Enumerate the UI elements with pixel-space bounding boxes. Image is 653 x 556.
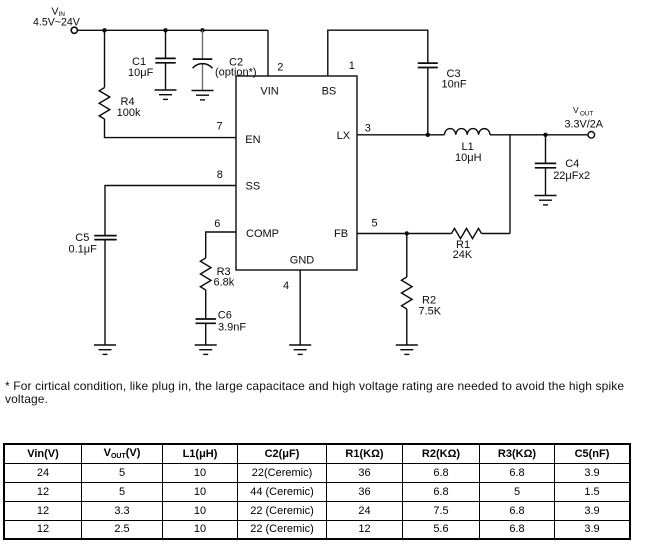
wire R2 bottom <box>406 309 408 345</box>
wire C5 to ground <box>104 240 106 345</box>
capacitor C2 wires <box>202 30 204 90</box>
capacitor C4 plates <box>535 163 556 167</box>
capacitor C2 curved plate <box>193 64 213 69</box>
capacitor C3 plates <box>418 63 438 67</box>
svg-text:C6: C6 <box>218 310 232 322</box>
inductor L1 <box>444 129 490 135</box>
wire C3 to LX node <box>427 68 429 135</box>
svg-text:10μF: 10μF <box>128 67 154 79</box>
svg-text:100k: 100k <box>117 107 141 119</box>
wire BS pin 1 to C3 <box>328 30 428 76</box>
capacitor C2 flat plate <box>193 58 213 60</box>
capacitor C6 plates <box>196 319 216 323</box>
ground C6 <box>195 345 217 354</box>
wire C6 to ground <box>205 323 207 345</box>
svg-text:10nF: 10nF <box>442 79 467 91</box>
svg-text:OUT: OUT <box>580 110 593 117</box>
svg-text:10μH: 10μH <box>455 152 482 164</box>
node junction R4/VIN <box>102 28 106 32</box>
wire L1 to VOUT terminal <box>490 134 588 136</box>
svg-text:0.1μF: 0.1μF <box>69 244 98 256</box>
wire VIN rail <box>78 29 268 31</box>
node junction C3/LX <box>426 133 430 137</box>
svg-text:VIN: VIN <box>260 85 278 97</box>
svg-text:2: 2 <box>277 62 283 74</box>
wire R4 top <box>104 30 106 87</box>
svg-text:5: 5 <box>372 218 378 230</box>
svg-text:6: 6 <box>214 218 220 230</box>
node junction C1/VIN <box>163 28 167 32</box>
capacitor C5 plates <box>94 236 116 240</box>
resistor R2 <box>402 277 413 309</box>
svg-text:3.3V/2A: 3.3V/2A <box>565 118 604 130</box>
resistor R4 <box>99 88 110 119</box>
resistor R3 <box>200 258 211 290</box>
wire R1 to VOUT drop <box>482 233 511 235</box>
svg-text:7: 7 <box>217 121 223 133</box>
output terminal VOUT <box>588 132 595 139</box>
svg-text:24K: 24K <box>453 249 473 261</box>
wire VOUT node down to R1 <box>509 135 511 234</box>
note text <box>5 380 653 406</box>
capacitor C4 wires <box>545 135 547 196</box>
svg-text:3.9nF: 3.9nF <box>218 322 246 334</box>
ground C4 <box>535 196 557 205</box>
wire COMP pin 6 to R3 <box>206 232 236 258</box>
svg-text:EN: EN <box>245 134 260 146</box>
parameter table <box>3 443 631 540</box>
svg-text:3: 3 <box>365 122 371 134</box>
svg-text:V: V <box>573 105 579 115</box>
svg-text:C5: C5 <box>75 232 89 244</box>
ground C5 <box>94 345 116 354</box>
node junction C4/VOUT <box>543 133 547 137</box>
wire pin2 stub <box>267 30 269 76</box>
svg-text:FB: FB <box>334 228 348 240</box>
svg-text:COMP: COMP <box>246 228 279 240</box>
svg-text:GND: GND <box>290 254 315 266</box>
svg-text:BS: BS <box>322 85 337 97</box>
ground C2 <box>192 91 214 100</box>
svg-text:1: 1 <box>349 60 355 72</box>
capacitor C1 wires <box>165 30 167 90</box>
wire GND pin 4 <box>299 270 301 345</box>
capacitor C1 plates <box>155 58 175 62</box>
wire R2 top <box>406 234 408 278</box>
svg-text:SS: SS <box>246 181 261 193</box>
wire R4 to EN pin 7 <box>105 119 237 138</box>
svg-text:4.5V~24V: 4.5V~24V <box>33 16 81 28</box>
IC U1 body <box>236 76 357 270</box>
ground R2 <box>396 345 418 354</box>
ground C1 <box>155 90 177 99</box>
wire LX pin 3 <box>357 134 444 136</box>
svg-text:4: 4 <box>283 280 289 292</box>
input terminal VIN <box>71 27 77 33</box>
svg-text:6.8k: 6.8k <box>214 277 235 289</box>
wire R3 to C6 <box>205 290 207 319</box>
svg-text:C4: C4 <box>565 158 579 170</box>
svg-text:(option*): (option*) <box>215 67 257 79</box>
svg-text:22μFx2: 22μFx2 <box>553 170 590 182</box>
svg-text:7.5K: 7.5K <box>419 306 442 318</box>
wire SS pin 8 to C5 <box>105 186 236 236</box>
svg-text:8: 8 <box>217 169 223 181</box>
node junction C2/VIN <box>200 28 204 32</box>
svg-text:LX: LX <box>337 130 351 142</box>
wire FB pin 5 <box>357 233 452 235</box>
ground pin 4 <box>289 345 311 354</box>
node junction FB/R2 <box>405 231 409 235</box>
resistor R1 <box>452 228 482 238</box>
